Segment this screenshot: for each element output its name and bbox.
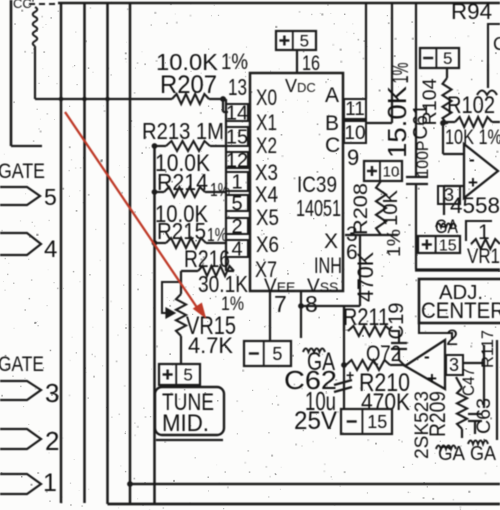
- svg-text:2: 2: [231, 216, 242, 238]
- underline TUNE MID: [156, 439, 223, 441]
- svg-text:1: 1: [43, 469, 57, 497]
- svg-text:X1: X1: [256, 110, 277, 135]
- svg-text:C: C: [325, 134, 340, 157]
- wire bus 4: [129, 3, 132, 504]
- svg-text:5: 5: [443, 49, 452, 68]
- wire adj top: [415, 268, 500, 271]
- resistor R102 body: [455, 117, 492, 127]
- wire R207 right: [209, 98, 226, 100]
- resistor CC coil: [33, 7, 38, 46]
- trimmer VR15 wiper: [162, 282, 181, 313]
- svg-text:+: +: [427, 369, 437, 388]
- svg-text:15: 15: [439, 237, 457, 254]
- wire B select h: [366, 122, 392, 124]
- wire bus 1: [60, 3, 63, 503]
- resistor R211 body: [348, 326, 391, 336]
- capacitor C61 plates: [406, 177, 428, 184]
- svg-text:-: -: [424, 347, 430, 366]
- power -15: [341, 409, 392, 434]
- pin box 1: [226, 172, 248, 191]
- resistor R208 body: [376, 181, 386, 235]
- pin box 5: [226, 195, 248, 211]
- junction R213 left: [152, 143, 158, 149]
- svg-text:3: 3: [449, 355, 459, 375]
- wire right edge: [496, 340, 498, 440]
- wire bottom row B: [108, 503, 500, 506]
- resistor R207: [172, 94, 209, 104]
- wire bus 3: [106, 3, 109, 504]
- svg-text:GA: GA: [470, 443, 497, 465]
- wire bus 2: [83, 3, 86, 503]
- svg-text:-: -: [469, 150, 475, 169]
- wire pin8 row: [301, 305, 360, 307]
- resistor R213: [166, 141, 210, 151]
- connector GATE 3: [0, 381, 41, 400]
- capacitor C62 plates: [334, 380, 352, 392]
- svg-text:CENTER: CENTER: [421, 298, 500, 323]
- wire R211 right: [391, 331, 399, 342]
- svg-text:15: 15: [367, 412, 387, 432]
- pin box 12: [226, 152, 248, 168]
- junction bus3 crossing: [105, 97, 110, 102]
- op-amp U1 4558 top: [464, 144, 498, 198]
- trimmer VR15 wiper arrow: [166, 308, 175, 318]
- wire pin column: [225, 99, 227, 271]
- ic IC39 body: [250, 73, 343, 291]
- svg-text:16: 16: [302, 52, 320, 75]
- svg-text:CC': CC': [13, 0, 34, 11]
- svg-text:5: 5: [300, 32, 309, 51]
- svg-text:GATE: GATE: [0, 160, 45, 183]
- pin box 10: [344, 121, 366, 143]
- svg-text:100P: 100P: [413, 141, 432, 178]
- pin box 15: [226, 127, 248, 146]
- wire R209 to ground: [461, 429, 463, 438]
- resistor R210 body: [346, 360, 390, 370]
- trimmer VR1 body: [471, 239, 500, 249]
- wire bottom row A: [130, 483, 500, 485]
- wire R216 to VR15: [180, 271, 182, 294]
- svg-text:X2: X2: [256, 133, 277, 158]
- power -5 at pin7: [244, 341, 291, 366]
- svg-text:15: 15: [226, 127, 248, 149]
- resistor R215: [166, 238, 206, 248]
- power +5 at pin16: [276, 31, 316, 51]
- resistor R214: [164, 187, 205, 197]
- svg-text:IC39: IC39: [297, 172, 337, 197]
- wire noninv input: [444, 185, 464, 187]
- label TUNE MID box: [155, 387, 224, 435]
- wire R211 left: [343, 306, 345, 331]
- svg-text:14051: 14051: [296, 195, 341, 221]
- svg-text:R216: R216: [184, 246, 230, 273]
- svg-text:GA: GA: [435, 217, 458, 238]
- junction bus4 bottom: [127, 481, 133, 487]
- wire top bus: [58, 2, 500, 5]
- power +15: [418, 236, 460, 254]
- junction bus1 crossing: [59, 97, 64, 102]
- junction R215 left: [152, 240, 158, 246]
- svg-text:2SK523: 2SK523: [412, 391, 433, 459]
- svg-text:10: 10: [344, 123, 365, 144]
- wire R94 down: [487, 64, 489, 88]
- wire X down: [359, 235, 361, 306]
- svg-text:3: 3: [45, 378, 59, 408]
- wire inv input v: [442, 122, 444, 154]
- svg-text:X6: X6: [256, 232, 279, 257]
- svg-text:8: 8: [305, 291, 318, 317]
- svg-text:4: 4: [44, 236, 57, 263]
- wire A select: [365, 3, 367, 99]
- pin box 2: [226, 218, 248, 234]
- svg-text:9: 9: [347, 145, 359, 170]
- label ADJ CENTER box: [419, 279, 500, 323]
- svg-text:2: 2: [45, 426, 59, 456]
- svg-text:10K 1%: 10K 1%: [445, 126, 500, 149]
- wire R215 left: [155, 242, 167, 244]
- wire C47 down: [474, 421, 476, 434]
- wire X row: [345, 234, 398, 236]
- wire R104 to R102: [446, 122, 448, 124]
- wire pin16: [296, 50, 298, 73]
- wire R94 bracket: [488, 24, 500, 64]
- junction R102 left: [440, 120, 446, 126]
- svg-text:5: 5: [44, 184, 57, 210]
- ground GA1 curl: [436, 446, 456, 450]
- svg-text:2: 2: [446, 325, 458, 350]
- svg-text:C: C: [493, 34, 500, 54]
- junction R210 node: [341, 362, 347, 368]
- wire stub to pin14 b: [223, 111, 228, 113]
- svg-text:25V: 25V: [294, 407, 337, 435]
- wire mid column: [343, 306, 345, 409]
- wire bus 5: [153, 146, 156, 504]
- wire CC down: [34, 46, 36, 99]
- wire R216 left: [181, 270, 198, 272]
- wire left stub: [11, 145, 42, 147]
- junction pin8 row: [298, 303, 304, 309]
- wire left border: [10, 0, 13, 146]
- svg-text:R94: R94: [451, 0, 492, 24]
- connector GATE 2: [0, 429, 41, 449]
- wire pin1 bracket: [466, 221, 492, 241]
- wire C column lower: [415, 184, 417, 269]
- capacitor C19 plates: [391, 343, 407, 349]
- wire dashed stub to CC: [29, 3, 57, 5]
- svg-text:X5: X5: [256, 205, 279, 230]
- wire R210 right: [390, 364, 405, 366]
- wire B select v: [391, 3, 393, 123]
- svg-text:4: 4: [231, 239, 242, 261]
- op-amp U2 4558 bottom: [405, 340, 445, 389]
- resistor R216: [198, 266, 234, 276]
- wire R213 left: [155, 145, 167, 147]
- wire box3 to R209: [456, 377, 462, 388]
- trimmer VR15 body: [176, 294, 186, 336]
- svg-text:1%: 1%: [387, 63, 413, 84]
- svg-text:11: 11: [345, 99, 365, 120]
- svg-text:R117: R117: [478, 330, 497, 368]
- ground GA op-amp curl: [436, 224, 456, 228]
- pin box 11: [344, 99, 366, 119]
- wire stub to pin14: [222, 99, 224, 112]
- capacitor C47 plates: [468, 414, 482, 421]
- svg-text:13: 13: [228, 74, 247, 100]
- wire inv input h: [443, 153, 464, 155]
- wire adj to pin2: [419, 323, 452, 340]
- wire R215 right: [206, 242, 226, 244]
- svg-text:VDC: VDC: [285, 76, 316, 96]
- svg-text:12: 12: [226, 150, 248, 172]
- svg-text:R211: R211: [343, 304, 389, 331]
- ground GA pin8 curl: [303, 349, 325, 353]
- svg-text:15.0K: 15.0K: [382, 85, 412, 158]
- wire pin8: [300, 291, 302, 338]
- wire C column upper: [415, 3, 417, 176]
- resistor R104 body: [443, 78, 452, 124]
- svg-text:470K: 470K: [353, 252, 378, 302]
- svg-text:4.7K: 4.7K: [188, 333, 233, 358]
- junction R214 left: [152, 189, 158, 195]
- power -5 top right: [420, 48, 459, 68]
- connector GATE 5: [0, 187, 40, 205]
- svg-text:1: 1: [231, 172, 242, 194]
- wire C19 down: [399, 349, 404, 365]
- wire curls: [477, 91, 497, 96]
- svg-text:5: 5: [183, 366, 192, 385]
- junction bus2 crossing: [82, 97, 87, 102]
- pin box 3 bottom: [446, 355, 463, 375]
- wire C47 bracket: [483, 345, 485, 408]
- wire R104 top stub: [446, 68, 448, 78]
- svg-text:INH: INH: [314, 253, 342, 278]
- wire pin7: [269, 291, 271, 341]
- svg-text:X4: X4: [255, 182, 278, 207]
- wire R216 right: [226, 270, 234, 272]
- pin box 4: [226, 240, 248, 257]
- wire box3 right: [463, 362, 484, 364]
- wire R213 right: [210, 145, 226, 147]
- ground GA2 curl: [468, 441, 488, 445]
- wire R102 lead: [443, 121, 455, 123]
- svg-text:C63: C63: [474, 398, 495, 434]
- svg-text:1%: 1%: [221, 49, 248, 74]
- svg-text:5: 5: [272, 344, 282, 364]
- junction R207 node: [220, 96, 226, 102]
- svg-text:4558: 4558: [450, 193, 500, 218]
- svg-text:7: 7: [274, 291, 287, 317]
- svg-text:C19: C19: [385, 303, 408, 340]
- svg-text:A: A: [325, 84, 339, 107]
- connector GATE 4: [0, 233, 41, 255]
- wire R102 right: [492, 121, 500, 123]
- svg-text:R102: R102: [447, 92, 495, 119]
- svg-text:GATE: GATE: [0, 353, 44, 376]
- pin box 14: [226, 104, 248, 121]
- svg-text:5: 5: [231, 193, 242, 215]
- wire noninv down: [443, 186, 445, 215]
- svg-text:10K: 10K: [380, 189, 402, 226]
- svg-text:10: 10: [383, 163, 400, 180]
- power box mid: [364, 161, 402, 181]
- wire R214 left: [155, 191, 165, 193]
- resistor R209 body: [457, 388, 467, 429]
- connector GATE 1: [0, 474, 41, 494]
- svg-text:C47: C47: [459, 368, 478, 396]
- svg-text:R207: R207: [160, 71, 217, 99]
- svg-text:3: 3: [444, 185, 454, 205]
- svg-text:X: X: [324, 230, 338, 253]
- wire R214 right: [205, 191, 226, 193]
- svg-text:X0: X0: [256, 85, 277, 110]
- svg-text:14: 14: [226, 103, 248, 125]
- wire VR15 down: [180, 336, 182, 364]
- red annotation arrow: [65, 112, 205, 317]
- wire R207 left: [35, 98, 172, 100]
- power +5 at VR15: [159, 364, 200, 385]
- pin box 3 op-amp: [438, 186, 460, 204]
- svg-text:R104: R104: [420, 78, 441, 125]
